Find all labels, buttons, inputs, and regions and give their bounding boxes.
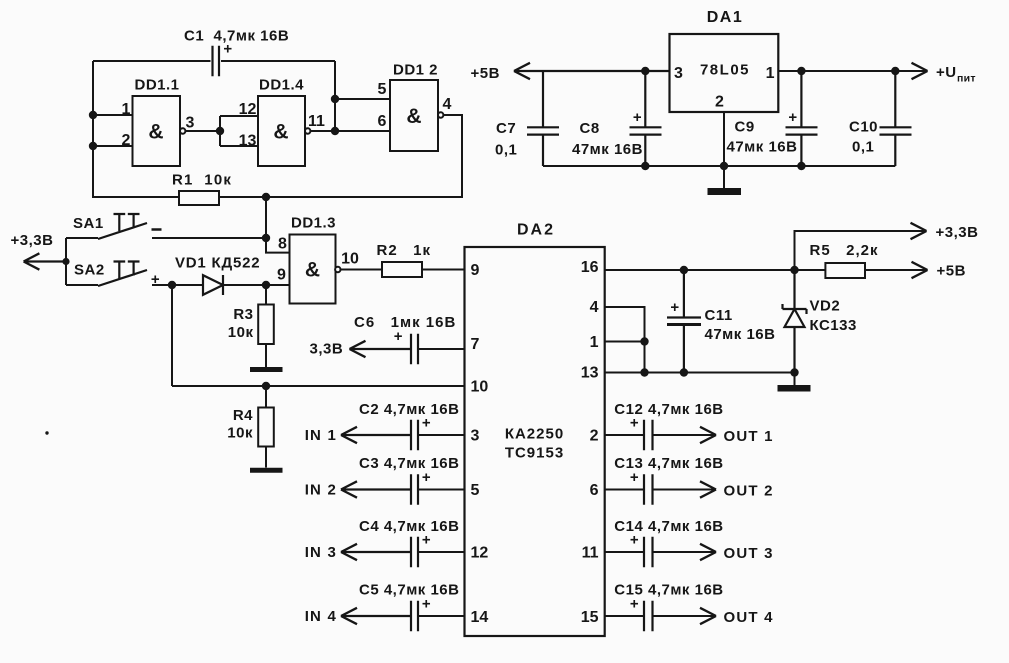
OUT4 arrow bbox=[700, 608, 716, 624]
node junction x335 vertical bbox=[334, 61, 336, 131]
svg-text:IN 4: IN 4 bbox=[305, 608, 337, 625]
svg-text:0,1: 0,1 bbox=[495, 142, 517, 159]
node VD2 top bbox=[790, 266, 798, 274]
+5B out label bbox=[937, 263, 966, 280]
svg-text:C8: C8 bbox=[580, 120, 600, 137]
svg-text:C14 4,7мк 16В: C14 4,7мк 16В bbox=[614, 518, 723, 535]
svg-text:IN 1: IN 1 bbox=[305, 427, 337, 444]
node pin1 pin4 bbox=[640, 337, 648, 345]
svg-text:3: 3 bbox=[471, 428, 480, 445]
node C8 top bbox=[641, 67, 649, 75]
svg-text:+: + bbox=[670, 299, 679, 316]
C4 value label bbox=[359, 518, 459, 535]
svg-text:пит: пит bbox=[957, 73, 976, 85]
capacitor C2 bbox=[411, 420, 418, 450]
DD1.3 ampersand bbox=[305, 259, 320, 282]
resistor R3 bbox=[258, 285, 274, 367]
zener VD2 bbox=[783, 270, 807, 373]
svg-text:47мк 16В: 47мк 16В bbox=[727, 139, 798, 156]
node pin6 branch bbox=[331, 127, 339, 135]
svg-text:6: 6 bbox=[378, 113, 387, 130]
svg-text:10к: 10к bbox=[228, 324, 254, 341]
DD1.1 ampersand bbox=[148, 121, 163, 144]
diode VD1 bbox=[203, 275, 223, 295]
svg-text:DA2: DA2 bbox=[517, 222, 555, 239]
capacitor C12 bbox=[644, 420, 653, 450]
svg-text:47мк 16В: 47мк 16В bbox=[572, 141, 643, 158]
wire DA2 pin13 rail bbox=[605, 372, 795, 374]
svg-text:C15 4,7мк 16В: C15 4,7мк 16В bbox=[614, 582, 723, 599]
wire DD1.3 pin8 jog bbox=[266, 238, 290, 253]
switch SA2 wire right bbox=[152, 284, 203, 286]
DD1.3 pin8 number bbox=[278, 236, 287, 253]
IC DA2 box bbox=[465, 247, 605, 636]
svg-text:10: 10 bbox=[341, 251, 359, 268]
svg-text:2: 2 bbox=[590, 428, 599, 445]
wire pin10 row bbox=[172, 385, 465, 387]
svg-text:R3: R3 bbox=[233, 306, 253, 323]
svg-text:47мк 16В: 47мк 16В bbox=[705, 326, 776, 343]
node VD2 bottom bbox=[790, 368, 798, 376]
wire C4 to DA2 pin12 bbox=[419, 551, 465, 553]
3,3B label bbox=[310, 341, 344, 358]
C11 label bbox=[705, 307, 776, 343]
R1 label bbox=[172, 172, 232, 189]
svg-text:C1 4,7мк 16В: C1 4,7мк 16В bbox=[184, 28, 289, 45]
svg-text:C7: C7 bbox=[496, 120, 516, 137]
node rail pin2 bbox=[89, 142, 97, 150]
DD1.2 pin6 number bbox=[378, 113, 387, 130]
OUT3 arrow bbox=[700, 544, 716, 560]
wire DA2 pin16 rail bbox=[605, 269, 795, 271]
C1 polarity plus bbox=[223, 41, 232, 58]
node rail pin1 bbox=[89, 111, 97, 119]
node SA1 pin8 bbox=[262, 234, 270, 242]
gate DD1.4 bbox=[258, 96, 305, 166]
svg-text:0,1: 0,1 bbox=[852, 139, 874, 156]
+5B feed arrow bbox=[514, 63, 670, 79]
input IN3 arrow bbox=[341, 544, 410, 560]
svg-text:3: 3 bbox=[186, 115, 195, 132]
wire +3,3B riser bbox=[795, 231, 927, 270]
capacitor C10 bbox=[880, 71, 912, 166]
svg-text:+U: +U bbox=[936, 64, 957, 81]
DD1.4 pin12 number bbox=[239, 101, 257, 118]
+Upit label bbox=[936, 64, 976, 85]
svg-text:&: & bbox=[406, 105, 421, 128]
DD1.2 pin4 number bbox=[443, 96, 452, 113]
svg-text:&: & bbox=[148, 121, 163, 144]
svg-text:11: 11 bbox=[308, 113, 325, 130]
svg-text:DD1.4: DD1.4 bbox=[259, 77, 304, 94]
DD1.4 ampersand bbox=[273, 121, 288, 144]
node C9 bottom bbox=[797, 162, 805, 170]
C15 value label bbox=[614, 582, 723, 599]
node DD1.1 out bbox=[216, 127, 224, 135]
SA1 label bbox=[73, 215, 104, 232]
svg-text:OUT 2: OUT 2 bbox=[724, 483, 774, 500]
node VD1 anode bbox=[168, 281, 176, 289]
SA2 plus mark bbox=[151, 271, 160, 288]
svg-text:+3,3В: +3,3В bbox=[936, 224, 979, 241]
node VD1 cathode R3 bbox=[262, 281, 270, 289]
OUT3 label bbox=[724, 545, 774, 562]
capacitor C11 bbox=[667, 270, 701, 373]
wire DD1.2 pin5 bbox=[335, 98, 390, 100]
svg-text:C12 4,7мк 16В: C12 4,7мк 16В bbox=[614, 401, 723, 418]
C8 polarity plus bbox=[633, 109, 642, 126]
wire DD1.1 pin1 bbox=[93, 114, 133, 116]
svg-text:15: 15 bbox=[581, 609, 599, 626]
svg-text:5: 5 bbox=[378, 81, 387, 98]
ground under R3 bbox=[250, 367, 283, 372]
node +3,3B tap bbox=[62, 258, 69, 265]
svg-text:13: 13 bbox=[581, 365, 599, 382]
svg-text:C2 4,7мк 16В: C2 4,7мк 16В bbox=[359, 401, 459, 418]
wire top (C1 row) bbox=[93, 60, 335, 62]
svg-text:9: 9 bbox=[277, 267, 286, 284]
svg-text:+5В: +5В bbox=[937, 263, 966, 280]
wire DA1 pin1 output bbox=[778, 70, 927, 72]
C14 value label bbox=[614, 518, 723, 535]
svg-text:DD1.3: DD1.3 bbox=[291, 215, 336, 232]
ground VD2 bbox=[778, 373, 811, 389]
switch SA2 wire left bbox=[66, 284, 98, 286]
svg-text:C4 4,7мк 16В: C4 4,7мк 16В bbox=[359, 518, 459, 535]
node pin13 join bbox=[640, 368, 648, 376]
switch SA2 actuator bbox=[114, 262, 140, 280]
node pin5 branch bbox=[331, 95, 339, 103]
svg-text:2: 2 bbox=[715, 94, 724, 111]
svg-text:8: 8 bbox=[278, 236, 287, 253]
svg-text:11: 11 bbox=[582, 545, 599, 562]
DD1.1 pin2 number bbox=[122, 132, 131, 149]
svg-text:+: + bbox=[788, 109, 797, 126]
DD1.1 output bubble bbox=[180, 128, 185, 133]
switch SA1 lever bbox=[98, 223, 147, 239]
C1 value label bbox=[184, 28, 289, 45]
switch SA2 lever bbox=[98, 270, 147, 286]
node DA1 gnd bbox=[720, 162, 728, 170]
svg-text:C11: C11 bbox=[705, 307, 733, 324]
svg-text:C6 1мк 16В: C6 1мк 16В bbox=[354, 314, 456, 331]
ground DA1 bbox=[708, 166, 742, 192]
wire DD1.3 out to R2 bbox=[341, 269, 383, 271]
svg-text:C5 4,7мк 16В: C5 4,7мк 16В bbox=[359, 582, 459, 599]
node switch bracket vertical bbox=[65, 238, 67, 285]
C15 polarity plus bbox=[630, 596, 639, 613]
wire DA1 ground rail bbox=[543, 165, 895, 167]
ground under R4 bbox=[250, 468, 283, 473]
wire DA2 pin4 bbox=[605, 307, 645, 373]
DD1.4 label bbox=[259, 77, 304, 94]
svg-text:+3,3В: +3,3В bbox=[11, 232, 54, 249]
node C10 top bbox=[891, 67, 899, 75]
node pin12/13 branch bbox=[220, 116, 258, 146]
DD1.3 output bubble bbox=[335, 267, 340, 272]
OUT1 label bbox=[724, 428, 774, 445]
svg-text:10: 10 bbox=[471, 379, 489, 396]
svg-text:1: 1 bbox=[766, 65, 775, 82]
output OUT3 row wire bbox=[605, 551, 716, 553]
wire R1 left to rail bbox=[93, 196, 179, 198]
DD1.3 pin10 number bbox=[341, 251, 359, 268]
gate DD1.1 bbox=[133, 96, 181, 166]
+5B feed label bbox=[471, 65, 500, 82]
capacitor C6 bbox=[411, 334, 418, 364]
DD1.3 label bbox=[291, 215, 336, 232]
wire left rail bbox=[92, 61, 94, 198]
+3,3B out arrow bbox=[911, 223, 927, 239]
power tap +3,3B arrow left bbox=[24, 253, 66, 269]
C6 value label bbox=[354, 314, 456, 331]
svg-text:78L05: 78L05 bbox=[700, 62, 750, 79]
node R1 feedback bbox=[262, 193, 270, 201]
wire C6 to DA2 pin7 bbox=[419, 348, 465, 350]
IN1 label bbox=[305, 427, 337, 444]
svg-text:R1 10к: R1 10к bbox=[172, 172, 232, 189]
C2 value label bbox=[359, 401, 459, 418]
DA2 label bbox=[517, 222, 555, 239]
IN4 label bbox=[305, 608, 337, 625]
output OUT1 row wire bbox=[605, 434, 716, 436]
svg-text:OUT 1: OUT 1 bbox=[724, 428, 774, 445]
svg-text:TC9153: TC9153 bbox=[505, 445, 564, 462]
svg-text:C10: C10 bbox=[849, 119, 878, 136]
C4 polarity plus bbox=[422, 532, 431, 549]
C13 value label bbox=[614, 455, 723, 472]
C9 polarity plus bbox=[788, 109, 797, 126]
capacitor C8 bbox=[630, 71, 662, 166]
svg-text:&: & bbox=[273, 121, 288, 144]
DD1.1 pin1 number bbox=[122, 101, 131, 118]
svg-text:C9: C9 bbox=[735, 119, 755, 136]
svg-text:IN 3: IN 3 bbox=[305, 544, 337, 561]
svg-text:DD1.1: DD1.1 bbox=[134, 77, 179, 94]
svg-text:КА2250: КА2250 bbox=[505, 426, 564, 443]
wire DA2 pin1 bbox=[605, 341, 645, 343]
DD1.1 label bbox=[134, 77, 179, 94]
svg-text:13: 13 bbox=[239, 133, 257, 150]
svg-text:R5 2,2к: R5 2,2к bbox=[810, 242, 879, 259]
C5 value label bbox=[359, 582, 459, 599]
node C11 bottom bbox=[680, 368, 688, 376]
SA1 minus mark bbox=[152, 228, 162, 231]
svg-text:IN 2: IN 2 bbox=[305, 482, 337, 499]
svg-text:3,3В: 3,3В bbox=[310, 341, 344, 358]
svg-text:VD2: VD2 bbox=[810, 298, 841, 315]
capacitor C4 bbox=[411, 537, 418, 567]
C14 polarity plus bbox=[630, 532, 639, 549]
svg-text:+: + bbox=[633, 109, 642, 126]
DD1.3 pin9 number bbox=[277, 267, 286, 284]
wire DA1 pin2 down bbox=[723, 112, 725, 166]
IC DA1 box bbox=[670, 34, 779, 112]
C9 label bbox=[727, 119, 798, 156]
C11 polarity plus bbox=[670, 299, 679, 316]
node C9 top bbox=[797, 67, 805, 75]
VD1 label bbox=[175, 255, 260, 272]
C12 polarity plus bbox=[630, 415, 639, 432]
VD2 label bbox=[810, 298, 857, 335]
capacitor C7 bbox=[527, 71, 559, 166]
output OUT2 row wire bbox=[605, 489, 716, 491]
wire R5 row bbox=[795, 269, 928, 271]
SA2 label bbox=[74, 262, 105, 279]
C3 value label bbox=[359, 455, 459, 472]
C6 polarity plus bbox=[394, 328, 403, 345]
svg-text:5: 5 bbox=[471, 482, 480, 499]
IN3 label bbox=[305, 544, 337, 561]
DA1 pin3 number bbox=[674, 65, 683, 82]
svg-text:6: 6 bbox=[590, 482, 599, 499]
node C11 top bbox=[680, 266, 688, 274]
svg-text:1: 1 bbox=[122, 101, 131, 118]
DA1 pin1 number bbox=[766, 65, 775, 82]
svg-text:+5В: +5В bbox=[471, 65, 500, 82]
DA2 part numbers bbox=[505, 426, 564, 462]
svg-text:R2 1к: R2 1к bbox=[377, 242, 432, 259]
svg-text:C3 4,7мк 16В: C3 4,7мк 16В bbox=[359, 455, 459, 472]
output OUT4 row wire bbox=[605, 615, 716, 617]
svg-text:16: 16 bbox=[581, 259, 599, 276]
OUT2 arrow bbox=[700, 481, 716, 497]
stray speck bbox=[45, 431, 48, 434]
svg-text:12: 12 bbox=[239, 101, 257, 118]
capacitor C3 bbox=[411, 474, 418, 504]
DD1.4 pin11 number bbox=[308, 113, 325, 130]
svg-text:12: 12 bbox=[471, 545, 489, 562]
C13 polarity plus bbox=[630, 469, 639, 486]
wire DD1.4 out to DD1.2 pin6 bbox=[310, 130, 390, 132]
+3,3B out label bbox=[936, 224, 979, 241]
svg-text:1: 1 bbox=[590, 334, 599, 351]
R4 label bbox=[227, 407, 253, 442]
IN2 label bbox=[305, 482, 337, 499]
capacitor C5 bbox=[411, 601, 418, 631]
R3 label bbox=[228, 306, 254, 341]
switch SA1 wire left bbox=[66, 237, 98, 239]
resistor R2 bbox=[382, 262, 422, 277]
DA1 label bbox=[707, 9, 744, 26]
input IN1 arrow bbox=[341, 427, 410, 443]
+3,3B label bbox=[11, 232, 54, 249]
wire feedback to SA1 node bbox=[265, 197, 267, 238]
C10 label bbox=[849, 119, 878, 156]
svg-text:2: 2 bbox=[122, 132, 131, 149]
DA1 pin2 number bbox=[715, 94, 724, 111]
C12 value label bbox=[614, 401, 723, 418]
svg-text:4: 4 bbox=[590, 299, 599, 316]
capacitor C9 bbox=[786, 71, 818, 166]
R5 label bbox=[810, 242, 879, 259]
OUT4 label bbox=[724, 609, 774, 626]
svg-text:SA1: SA1 bbox=[73, 215, 104, 232]
svg-text:DD1 2: DD1 2 bbox=[393, 62, 438, 79]
svg-text:SA2: SA2 bbox=[74, 262, 105, 279]
input IN2 arrow bbox=[341, 481, 410, 497]
C7 label bbox=[495, 120, 517, 158]
input IN4 arrow bbox=[341, 608, 410, 624]
wire C3 to DA2 pin5 bbox=[419, 489, 465, 491]
node pin10 R4 bbox=[262, 382, 270, 390]
C3 polarity plus bbox=[422, 469, 431, 486]
OUT2 label bbox=[724, 483, 774, 500]
svg-text:C13 4,7мк 16В: C13 4,7мк 16В bbox=[614, 455, 723, 472]
DA2 left pin numbers bbox=[471, 262, 489, 626]
capacitor C1 bbox=[213, 46, 220, 77]
svg-text:4: 4 bbox=[443, 96, 452, 113]
capacitor C13 bbox=[644, 474, 653, 504]
DD1.2 ampersand bbox=[406, 105, 421, 128]
wire DD1.2 output feedback bbox=[219, 115, 462, 197]
svg-text:OUT 4: OUT 4 bbox=[724, 609, 774, 626]
capacitor C15 bbox=[644, 601, 653, 631]
wire DD1.1 out to junction bbox=[185, 130, 220, 132]
DD1.4 pin13 number bbox=[239, 133, 257, 150]
DD1.2 pin5 number bbox=[378, 81, 387, 98]
svg-text:R4: R4 bbox=[233, 407, 253, 424]
wire R2 to DA2 pin9 bbox=[422, 269, 465, 271]
wire DD1.1 pin2 bbox=[93, 145, 133, 147]
switch SA1 wire right bbox=[152, 237, 266, 239]
DD1.1 pin3 number bbox=[186, 115, 195, 132]
R2 label bbox=[377, 242, 432, 259]
svg-text:&: & bbox=[305, 259, 320, 282]
3,3B tap arrow bbox=[350, 341, 411, 357]
DD1.2 label bbox=[393, 62, 438, 79]
svg-text:10к: 10к bbox=[227, 425, 253, 442]
svg-text:3: 3 bbox=[674, 65, 683, 82]
resistor R4 bbox=[258, 386, 274, 468]
wire C5 to DA2 pin14 bbox=[419, 615, 465, 617]
svg-text:9: 9 bbox=[471, 262, 480, 279]
gate DD1.2 bbox=[390, 80, 438, 151]
C2 polarity plus bbox=[422, 415, 431, 432]
gate DD1.3 bbox=[290, 235, 336, 304]
wire VD1 cathode to node bbox=[223, 284, 290, 286]
resistor R1 bbox=[179, 191, 219, 205]
wire VD1 anode tap down to pin10 row bbox=[171, 285, 173, 386]
+Uout arrow bbox=[912, 63, 928, 79]
DD1.4 output bubble bbox=[305, 128, 310, 133]
capacitor C14 bbox=[644, 537, 653, 567]
switch SA1 actuator bbox=[114, 214, 140, 231]
wire C2 to DA2 pin3 bbox=[419, 434, 465, 436]
svg-text:14: 14 bbox=[471, 609, 489, 626]
C8 label bbox=[572, 120, 643, 158]
C5 polarity plus bbox=[422, 596, 431, 613]
svg-text:DA1: DA1 bbox=[707, 9, 744, 26]
svg-text:OUT 3: OUT 3 bbox=[724, 545, 774, 562]
DA1 part number 78L05 bbox=[700, 62, 750, 79]
DA2 right pin numbers bbox=[581, 259, 599, 626]
resistor R5 bbox=[825, 263, 865, 278]
OUT1 arrow bbox=[700, 427, 716, 443]
DD1.2 output bubble bbox=[438, 112, 443, 117]
node C8 bottom bbox=[641, 162, 649, 170]
svg-text:7: 7 bbox=[471, 336, 480, 353]
+5B out arrow bbox=[912, 262, 928, 278]
svg-text:КС133: КС133 bbox=[810, 317, 857, 334]
svg-text:VD1 КД522: VD1 КД522 bbox=[175, 255, 260, 272]
